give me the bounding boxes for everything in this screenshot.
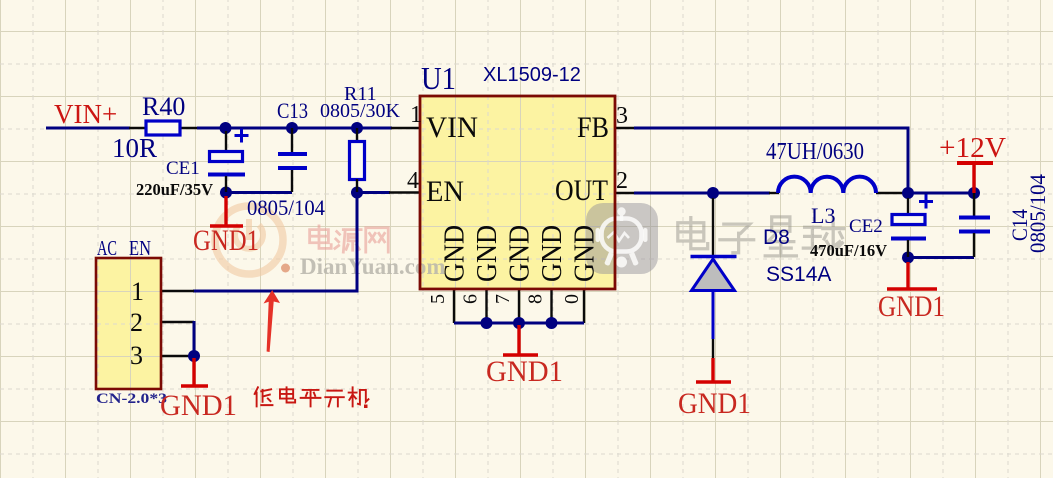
wire C13 top to R11 top [292, 127, 357, 130]
node connector pins 2-3 junction [188, 350, 200, 362]
svg-text:OUT: OUT [555, 174, 608, 207]
svg-text:0: 0 [561, 294, 583, 304]
watermark Chinese text dian(electric) [310, 226, 389, 252]
wire D8 node to L3 [713, 192, 779, 195]
wire U1 GND pins bus [454, 289, 584, 323]
svg-text:SS14A: SS14A [766, 263, 831, 286]
svg-text:CN-2.0*3: CN-2.0*3 [96, 391, 167, 407]
svg-text:1: 1 [131, 277, 144, 306]
svg-text:GND: GND [537, 225, 568, 282]
IC U1 body [420, 96, 615, 289]
annotation arrow (red, pointing up to pin1 wire) [264, 290, 281, 352]
wire +12V node to C14 top [908, 192, 974, 195]
resistor R11 [350, 128, 365, 192]
svg-text:47UH/0630: 47UH/0630 [766, 139, 864, 165]
connector CN1 body [96, 258, 161, 389]
svg-text:7: 7 [492, 294, 514, 304]
svg-text:XL1509-12: XL1509-12 [483, 64, 581, 86]
svg-text:6: 6 [460, 294, 482, 304]
annotation Chinese text di-dian-ping-kai-ji (low level power on) [255, 387, 369, 408]
wire GND rail CE1 to C13 bottom [226, 191, 292, 194]
svg-text:VIN: VIN [426, 111, 478, 144]
node C14 top junction [968, 187, 980, 199]
svg-text:0805/104: 0805/104 [1025, 174, 1050, 253]
watermark Chinese text yuan(source) [335, 230, 361, 253]
ground GND1 at U1 [503, 325, 538, 355]
watermark Chinese text xing(star) [765, 217, 796, 256]
svg-text:3: 3 [616, 103, 628, 129]
svg-text:8: 8 [525, 294, 547, 304]
svg-text:GND: GND [505, 225, 536, 282]
node GND bus junction pin6 [481, 317, 493, 329]
node R11 top junction [351, 122, 363, 134]
svg-text:DianYuan.com: DianYuan.com [300, 254, 446, 279]
node CE1 bottom GND junction [220, 187, 232, 199]
svg-text:2: 2 [130, 308, 143, 337]
svg-text:L3: L3 [811, 203, 835, 228]
wire L3 to +12V node [876, 192, 904, 194]
svg-text:C13: C13 [277, 98, 308, 123]
svg-text:+12V: +12V [939, 132, 1006, 164]
svg-text:GND: GND [570, 225, 601, 282]
watermark text DianYuan red dot [281, 264, 290, 273]
wire VIN junction to C13 top [225, 127, 292, 130]
ground GND1 at CE2/C14 [887, 262, 937, 289]
wire connector pin3 stub [161, 355, 194, 357]
power +12V symbol [957, 163, 993, 193]
wire U1 OUT pin 2 to D8 node [615, 192, 713, 194]
svg-text:R40: R40 [142, 92, 185, 121]
svg-text:0805/104: 0805/104 [247, 195, 325, 220]
node CE2 bottom junction [902, 252, 914, 264]
wire U1 FB pin 3 to +12V node [615, 128, 908, 193]
wire VIN+ input to R40 [46, 127, 146, 130]
capacitor CE1 [208, 129, 249, 193]
node C13 top junction [286, 122, 298, 134]
svg-text:GND1: GND1 [193, 224, 259, 257]
watermark Chinese text wang(net) [366, 228, 389, 252]
diode D8 [691, 198, 737, 358]
svg-text:EN: EN [426, 175, 464, 208]
svg-text:10R: 10R [112, 133, 157, 163]
svg-text:FB: FB [577, 111, 609, 144]
watermark robot icon [586, 203, 658, 274]
svg-text:CE2: CE2 [849, 216, 883, 237]
svg-text:GND1: GND1 [678, 387, 751, 420]
svg-text:3: 3 [130, 341, 143, 370]
inductor L3 [778, 177, 876, 193]
svg-text:VIN+: VIN+ [54, 99, 117, 129]
svg-text:470uF/16V: 470uF/16V [810, 241, 887, 260]
svg-text:2: 2 [616, 168, 628, 194]
node GND bus junction pin8 [546, 317, 558, 329]
wire connector pin1 stub [161, 290, 194, 292]
svg-text:EN: EN [129, 236, 151, 260]
capacitor C13 [278, 128, 307, 192]
node +12V junction [902, 187, 914, 199]
svg-text:GND: GND [472, 225, 503, 282]
WATERMARKS [46, 60, 1050, 422]
label AC EN [97, 236, 151, 260]
wire R11 top to U1 pin 1 [357, 127, 420, 130]
svg-text:0805/30K: 0805/30K [320, 100, 401, 122]
svg-text:CE1: CE1 [166, 158, 200, 179]
svg-text:1: 1 [410, 102, 422, 128]
watermark DianYuan logo ring [215, 206, 283, 274]
svg-text:5: 5 [427, 294, 449, 304]
capacitor C14 [959, 193, 990, 257]
svg-text:AC: AC [97, 236, 117, 260]
svg-text:U1: U1 [421, 60, 456, 96]
capacitor CE2 [891, 195, 933, 258]
wire R40 to VIN junction [180, 127, 226, 129]
wire connector pin2 stub and down [161, 321, 194, 356]
node EN net junction (R11 bottom) [351, 187, 363, 199]
wire CE2 bottom to C14 bottom rail [908, 256, 974, 259]
svg-text:GND1: GND1 [486, 355, 563, 388]
watermark Chinese text qiu(ball) [803, 218, 843, 248]
node VIN/CE1 junction [220, 122, 232, 134]
ground GND1 at connector [181, 358, 208, 386]
node OUT/D8 junction [707, 187, 719, 199]
wire EN net down to connector pin 1 [193, 191, 357, 291]
watermark Chinese text dian(electric) 2 [678, 217, 844, 256]
ground GND1 at D8 [696, 358, 731, 382]
svg-text:4: 4 [407, 168, 419, 194]
svg-text:D8: D8 [763, 226, 790, 249]
resistor R40 [146, 121, 180, 135]
svg-text:GND1: GND1 [160, 389, 237, 422]
svg-text:GND: GND [440, 225, 471, 282]
ground GND1 at CE1 [210, 196, 243, 226]
node GND bus junction pin7 [513, 317, 525, 329]
watermark Chinese text zi(child) [720, 224, 754, 253]
svg-text:GND1: GND1 [878, 290, 945, 323]
svg-text:220uF/35V: 220uF/35V [136, 180, 213, 199]
wire R11 bottom to U1 EN pin 4 [357, 191, 420, 194]
